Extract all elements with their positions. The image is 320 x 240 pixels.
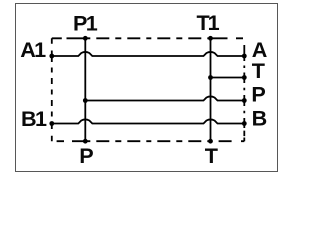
junction T1 wire / T line: [208, 75, 213, 80]
node B (right port dot): [242, 121, 247, 126]
node A (right port dot): [242, 54, 247, 59]
node P (right port dot): [242, 98, 247, 103]
svg-text:B1: B1: [21, 106, 47, 131]
svg-text:A1: A1: [20, 37, 46, 62]
wire T1 to T (vertical): [210, 38, 212, 141]
node B1 (left port dot): [49, 121, 54, 126]
wire B1 to B (with hops over P1 and T1 wires): [52, 119, 245, 123]
wire P1 junction to P port (hop over T1 wire): [85, 96, 244, 100]
svg-text:P1: P1: [73, 10, 98, 35]
subplate outline right edge (dashed): [243, 38, 245, 141]
node T1 (top junction dot): [208, 36, 213, 41]
svg-text:T: T: [205, 143, 218, 168]
outer border frame: [16, 4, 278, 172]
node A1 (left port dot): [49, 54, 54, 59]
node T (bottom junction dot): [208, 139, 213, 144]
junction P1 wire / P line: [83, 98, 88, 103]
svg-text:T: T: [252, 58, 265, 83]
subplate outline top edge (dashed): [52, 37, 245, 39]
node P1 (top junction dot): [83, 36, 88, 41]
svg-text:P: P: [251, 81, 265, 106]
wire A1 to A (with hops over P1 and T1 wires): [52, 52, 245, 56]
subplate outline left edge (dashed): [51, 38, 53, 141]
svg-text:B: B: [252, 106, 268, 131]
node T (right port dot): [242, 75, 247, 80]
svg-text:P: P: [79, 143, 93, 168]
subplate outline bottom edge (dashed): [52, 140, 245, 142]
wire T1 junction to T port: [211, 77, 245, 79]
node P (bottom junction dot): [83, 139, 88, 144]
svg-text:T1: T1: [197, 10, 220, 35]
wire P1 to P (vertical): [84, 38, 86, 141]
